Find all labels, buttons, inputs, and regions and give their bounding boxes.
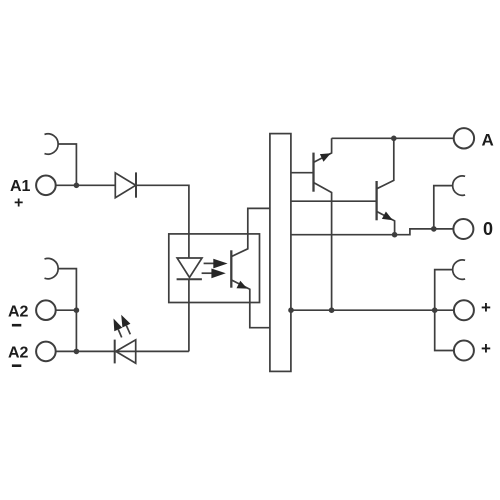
transistor Q1 base bar (312, 153, 314, 192)
wire bridge1 to A1 node (58, 144, 76, 185)
plug bridge contact (A1 group) (45, 134, 59, 154)
wire A2 upper to junction (56, 309, 77, 311)
transistor Q1 emitter up (314, 138, 332, 162)
top rail wire to terminal A (332, 137, 454, 139)
terminal A (454, 128, 474, 148)
LED light arrow 2 shaft (126, 326, 130, 335)
terminal plus lower (454, 341, 474, 361)
plug bridge contact (+ group) (453, 260, 465, 279)
optocoupler U1 box (169, 234, 260, 303)
node junction top rail (391, 136, 397, 142)
wire A2 upper junction down to A2 lower (75, 310, 77, 351)
label minus under A2 upper (12, 324, 21, 327)
wire A2 lower through LED to opto (56, 350, 189, 352)
node junction A2 upper (74, 307, 80, 313)
opto phototransistor collector (231, 208, 270, 256)
svg-text:A2: A2 (8, 304, 29, 321)
terminal A2 lower (36, 342, 56, 362)
Q1 emitter arrowhead (320, 153, 331, 161)
svg-text:A1: A1 (10, 178, 31, 195)
terminal A1 (36, 176, 56, 196)
transistor Q2 base bar (375, 181, 377, 220)
wire bridge3 to 0 node (434, 186, 452, 229)
transistor Q1 collector down (314, 183, 332, 311)
opto light arrow 1 shaft (204, 262, 215, 264)
opto phototransistor emitter (231, 280, 270, 328)
label minus under A2 lower (12, 364, 21, 367)
terminal plus upper (454, 300, 474, 320)
opto LED cathode bar (177, 278, 202, 280)
plus rail wire (291, 309, 454, 311)
svg-text:A2: A2 (8, 345, 29, 362)
svg-text:+: + (481, 339, 491, 358)
opto light arrow 1 head (213, 259, 227, 269)
plug connector barrier (270, 134, 291, 372)
node junction A1 (74, 183, 80, 189)
diode D1 triangle (115, 173, 135, 198)
svg-text:A: A (482, 130, 494, 149)
terminal 0 (453, 219, 473, 239)
Q2 emitter arrowhead (382, 212, 393, 221)
node junction Q1 collector on plus rail (329, 307, 335, 313)
wire A1 to diode (56, 184, 116, 186)
wire barrier to Q1 base (291, 172, 314, 174)
opto phototransistor base bar (230, 250, 232, 287)
node junction A2 lower (74, 349, 80, 355)
wire bridge2 to A2 node (58, 269, 76, 311)
terminal A2 upper (36, 300, 56, 320)
svg-text:+: + (14, 195, 23, 212)
opto light arrow 2 shaft (202, 272, 213, 274)
transistor Q2 collector up (377, 138, 394, 189)
wire barrier to Q2 base (291, 200, 377, 202)
LED indicator anode bar (114, 340, 116, 364)
LED indicator triangle (116, 340, 136, 363)
node junction plus rail at barrier (288, 307, 294, 313)
plug bridge contact (A2 group) (45, 258, 59, 278)
svg-text:0: 0 (483, 219, 493, 239)
wire opto LED cathode down (188, 279, 190, 351)
svg-text:+: + (481, 298, 491, 317)
wire bridge4 down to plus rail (435, 270, 452, 311)
wire down to terminal plus lower (435, 310, 454, 350)
plug bridge contact (0 group) (453, 176, 465, 195)
LED light arrow 2 head (121, 315, 130, 328)
opto emitter arrowhead (237, 281, 248, 289)
LED light arrow 1 shaft (118, 330, 121, 338)
opto light arrow 2 head (211, 269, 225, 279)
diode D1 cathode bar (135, 172, 137, 197)
wire diode to optocoupler LED (136, 185, 189, 258)
opto LED triangle (177, 258, 202, 277)
node junction 0 wire (431, 226, 437, 232)
LED light arrow 1 head (114, 319, 123, 332)
node junction plus rail (432, 307, 438, 313)
emitter rail wire to terminal 0 (291, 229, 454, 235)
node junction Q2 emitter (392, 232, 398, 238)
transistor Q2 emitter down (377, 211, 395, 234)
